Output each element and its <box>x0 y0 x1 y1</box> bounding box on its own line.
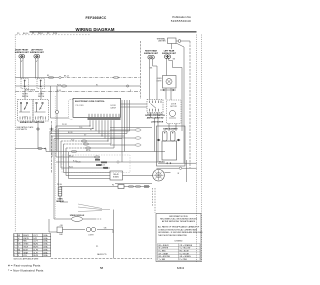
wire tag oval on W bus <box>61 85 67 87</box>
svg-text:R-14: R-14 <box>53 33 57 35</box>
svg-text:R = RED: R = RED <box>159 251 167 253</box>
wire across warmer switch boxes y86 <box>15 85 140 87</box>
svg-text:P = PINK: P = PINK <box>180 259 188 261</box>
oven light box <box>157 76 176 101</box>
bundle horizontals right <box>61 140 82 142</box>
bake element cartridges <box>163 131 168 141</box>
bus wire labels <box>57 76 98 92</box>
svg-text:6: 6 <box>14 249 15 251</box>
svg-text:P3 GN: P3 GN <box>57 184 63 186</box>
svg-text:CONDUCTING ELECTRICAL CURRENT: CONDUCTING ELECTRICAL CURRENT ARE <box>158 228 198 231</box>
svg-text:W-10: W-10 <box>104 168 108 170</box>
svg-text:SPARK MODULE: SPARK MODULE <box>70 214 85 217</box>
EOC terminal drops <box>89 120 91 126</box>
svg-text:W-14: W-14 <box>57 84 61 86</box>
svg-text:P2: P2 <box>47 33 49 35</box>
svg-text:P4: P4 <box>112 184 114 186</box>
junction at x127 on W bus <box>127 85 129 87</box>
wire y219 with transformer <box>54 218 71 220</box>
svg-text:62613: 62613 <box>177 266 185 270</box>
svg-text:LIGHT: LIGHT <box>157 80 162 82</box>
svg-text:LEGEND: LEGEND <box>175 240 183 242</box>
drop to bottom rail <box>113 210 115 259</box>
svg-text:BK-14: BK-14 <box>23 33 28 35</box>
mid-right short horizontals with components <box>110 127 152 129</box>
surface unit LR <box>162 50 177 61</box>
top supply wire (dashed) with labels <box>16 34 90 36</box>
svg-text:V = VIOLET: V = VIOLET <box>180 253 191 255</box>
surface unit contact dots <box>20 56 169 58</box>
svg-text:V: V <box>18 255 20 257</box>
wire riser x157 from SU-RR <box>152 59 154 66</box>
svg-text:3: 3 <box>14 241 15 243</box>
svg-text:L1 P: L1 P <box>23 117 27 119</box>
svg-text:SENSOR: SENSOR <box>56 201 64 203</box>
thermal limiter (top right assembly) <box>156 37 180 43</box>
svg-text:W-12: W-12 <box>69 166 73 168</box>
svg-text:GROUNDED - IF GROUND WIRES ARE: GROUNDED - IF GROUND WIRES ARE REMOVED <box>158 231 203 234</box>
notes box <box>156 214 201 262</box>
svg-text:GN-10: GN-10 <box>76 162 81 164</box>
svg-text:# = Fast-moving Parts: # = Fast-moving Parts <box>8 264 41 268</box>
bus N (y88.5) <box>15 91 140 93</box>
svg-text:BK-12: BK-12 <box>69 155 74 157</box>
infinite switch terminal ticks <box>20 117 46 120</box>
svg-text:5A05557TL: 5A05557TL <box>97 253 107 256</box>
svg-text:H1: H1 <box>24 108 26 110</box>
svg-text:L1-P1: L1-P1 <box>33 235 38 237</box>
svg-text:ALL PARTS OF THIS APPLIANCE CA: ALL PARTS OF THIS APPLIANCE CAPABLE OF <box>158 226 200 229</box>
surface unit LF leads <box>35 58 37 79</box>
svg-text:BK: BK <box>150 68 153 70</box>
svg-text:P1: P1 <box>32 33 34 35</box>
bus L1 (y77.5) <box>15 77 59 79</box>
svg-text:W = WHITE: W = WHITE <box>159 248 169 250</box>
svg-text:R: R <box>130 90 132 92</box>
svg-text:BK: BK <box>173 59 176 61</box>
surface unit RF <box>15 50 30 59</box>
svg-text:Y-16: Y-16 <box>79 127 82 129</box>
oven light lamp y229.5 <box>86 227 90 231</box>
svg-text:BK-16: BK-16 <box>86 150 91 152</box>
dashed drop from motor circle <box>154 188 156 213</box>
door lock block wires <box>150 113 152 119</box>
svg-text:1: 1 <box>14 235 15 237</box>
bus y162 with junction <box>56 161 117 163</box>
surface unit RR <box>144 50 159 70</box>
svg-text:TB BK-10: TB BK-10 <box>98 165 105 167</box>
svg-text:1-BK: 1-BK <box>59 234 64 236</box>
svg-text:8: 8 <box>14 255 15 257</box>
wire box N to motor circle <box>123 175 153 177</box>
wire y183.5 <box>115 183 152 185</box>
risers below infinite switch block <box>37 121 39 149</box>
wire riser x190 <box>189 41 191 168</box>
table cell text <box>14 234 48 257</box>
svg-text:BOARD: BOARD <box>113 176 120 179</box>
tag cluster on left bus <box>38 148 42 150</box>
svg-text:W-14: W-14 <box>38 33 42 35</box>
electronic oven control box <box>73 98 121 117</box>
convection motor circle <box>153 169 165 181</box>
EOC fan-out left horizontals <box>50 130 130 132</box>
svg-text:SURFACE UNIT: SURFACE UNIT <box>162 52 177 55</box>
warmer switch box left <box>21 79 29 89</box>
right chassis border inner (dotted) <box>196 35 198 263</box>
svg-text:GN = GREEN: GN = GREEN <box>180 256 192 258</box>
wire riser x184 <box>183 47 185 163</box>
svg-text:6″: 6″ <box>36 61 38 63</box>
dotted console divider x55 <box>54 96 56 219</box>
small box on y229.5 <box>57 227 63 233</box>
bake element bottom wires <box>158 162 197 164</box>
svg-text:5995559040: 5995559040 <box>171 19 191 23</box>
svg-text:P9: P9 <box>17 33 19 35</box>
svg-text:BU-16: BU-16 <box>68 132 73 134</box>
svg-text:SWITCH: SWITCH <box>22 96 29 98</box>
svg-text:BK-16: BK-16 <box>159 161 164 163</box>
switch name labels under warmer boxes <box>22 94 45 98</box>
svg-text:BR-P5: BR-P5 <box>33 247 38 249</box>
svg-text:AND PLUNGER SW: AND PLUNGER SW <box>147 117 164 120</box>
top-right assembly wires <box>176 40 178 42</box>
junction at x60 <box>59 76 61 78</box>
svg-text:OL-P7: OL-P7 <box>33 252 38 254</box>
terminal block cluster <box>95 159 108 169</box>
bottom rail <box>51 257 152 259</box>
mid cluster labels <box>69 155 108 169</box>
band y186.5 <box>60 186 118 188</box>
svg-text:R-14: R-14 <box>57 90 61 92</box>
element connector diamonds <box>157 139 161 142</box>
wire y229.5 cluster <box>49 231 57 233</box>
wire tag ovals mid <box>81 140 86 142</box>
svg-text:4: 4 <box>14 244 15 246</box>
svg-text:2: 2 <box>14 238 15 240</box>
infinite switch box right <box>33 100 49 122</box>
bake element body <box>162 141 177 160</box>
junction dots <box>89 125 108 141</box>
color code table <box>158 244 201 261</box>
door lock motor box <box>167 100 182 124</box>
wire tag ovals mid-right <box>135 129 141 131</box>
riser x57 with component <box>56 86 58 111</box>
infinite switch box left <box>18 100 34 122</box>
svg-text:SWITCH: SWITCH <box>38 96 45 98</box>
svg-text:-OB: -OB <box>59 225 63 227</box>
svg-text:BAKE ELEMENT: BAKE ELEMENT <box>163 128 178 131</box>
title rule <box>30 31 197 33</box>
svg-text:P1: P1 <box>96 246 98 248</box>
element size labels <box>21 61 38 63</box>
svg-text:BU = BLUE: BU = BLUE <box>180 251 190 253</box>
svg-text:V-16: V-16 <box>71 139 74 141</box>
svg-text:Y = YELLOW: Y = YELLOW <box>180 248 191 250</box>
svg-text:MOTOR: MOTOR <box>170 106 177 108</box>
svg-text:BLACK: BLACK <box>23 234 29 237</box>
oven cavity enclosure box <box>157 126 186 166</box>
svg-text:SURFACE UNIT: SURFACE UNIT <box>30 51 45 54</box>
svg-text:LIGHT: LIGHT <box>88 234 94 236</box>
svg-text:SURF UNITS: SURF UNITS <box>25 90 36 92</box>
EOC right risers <box>121 100 123 162</box>
svg-text:600V 105C APPLIANCE WIRE: 600V 105C APPLIANCE WIRE <box>14 257 39 260</box>
element bottom arrows <box>166 162 168 164</box>
svg-text:SURFACE UNIT: SURFACE UNIT <box>15 51 30 54</box>
svg-text:YELW: YELW <box>23 247 28 249</box>
svg-text:SURFACE UNIT SWITCHES: SURFACE UNIT SWITCHES <box>20 121 45 124</box>
dashed harness outline <box>62 155 130 173</box>
svg-text:LOCK MOTOR: LOCK MOTOR <box>151 122 164 124</box>
svg-text:BA-P4: BA-P4 <box>33 243 38 246</box>
svg-text:FEF366MCC: FEF366MCC <box>85 16 106 20</box>
SU-LR leads <box>166 58 168 75</box>
wire N feed to EOC <box>51 86 69 118</box>
svg-text:LT FRT: LT FRT <box>38 94 43 96</box>
svg-text:DL-P6: DL-P6 <box>33 249 38 251</box>
svg-text:BK = BLACK: BK = BLACK <box>159 244 170 247</box>
svg-text:N-P2: N-P2 <box>33 238 37 240</box>
svg-text:BR = BROWN: BR = BROWN <box>159 256 171 258</box>
relay box N <box>110 171 123 180</box>
component on riser x57 <box>56 110 59 114</box>
svg-text:P5 OR: P5 OR <box>62 124 68 126</box>
surface unit RF leads <box>20 58 22 79</box>
svg-text:ORNG: ORNG <box>23 244 29 246</box>
door lock switch box <box>147 100 163 113</box>
wire y67.5 right <box>173 67 183 69</box>
svg-text:L2 P: L2 P <box>39 117 43 119</box>
left chassis border (dotted) <box>14 35 16 233</box>
svg-text:P11 CONN: P11 CONN <box>76 105 85 107</box>
transformer on y219 <box>72 217 83 222</box>
console dashed outline left edge <box>69 100 73 120</box>
svg-text:LIMITER: LIMITER <box>158 41 166 43</box>
svg-text:SURFACE UNIT: SURFACE UNIT <box>144 52 159 55</box>
svg-text:VIOL: VIOL <box>23 255 27 257</box>
svg-text:5: 5 <box>14 247 15 249</box>
svg-text:P7: P7 <box>90 129 92 131</box>
parts legend table <box>14 234 51 257</box>
oven sensor <box>56 187 64 203</box>
svg-text:OR = ORANGE: OR = ORANGE <box>180 244 193 247</box>
svg-text:OB: OB <box>104 228 107 230</box>
svg-text:7: 7 <box>14 252 15 254</box>
fan wire labels <box>62 124 92 141</box>
svg-text:L2-P3: L2-P3 <box>33 241 38 243</box>
EOC terminal ticks <box>89 114 119 118</box>
svg-text:FOR WATTS: FOR WATTS <box>17 128 28 131</box>
svg-text:LATCH: LATCH <box>111 107 117 110</box>
connector converge diagonals <box>78 204 102 209</box>
bus y151.5 <box>15 148 46 150</box>
svg-text:AFTER SERVICING THIS APPLIANCE: AFTER SERVICING THIS APPLIANCE <box>162 220 196 223</box>
svg-text:RT FRT: RT FRT <box>22 94 28 96</box>
svg-text:WIRING DIAGRAM: WIRING DIAGRAM <box>75 27 114 32</box>
svg-text:GY = GRAY: GY = GRAY <box>159 252 169 255</box>
wire riser x182 <box>181 68 183 132</box>
wire riser x140 <box>140 41 142 99</box>
svg-text:WHITE: WHITE <box>23 238 29 240</box>
svg-text:H2: H2 <box>39 108 41 110</box>
wires group <box>15 41 196 258</box>
EOC to door lock switch wires <box>121 103 148 105</box>
svg-text:* = Non-Illustrated Parts: * = Non-Illustrated Parts <box>8 268 44 272</box>
svg-text:THEY MUST BE RECONNECTED: THEY MUST BE RECONNECTED <box>158 235 188 237</box>
svg-text:8″: 8″ <box>21 61 23 63</box>
svg-text:T = TAN: T = TAN <box>159 258 166 261</box>
right chassis border outer (dotted) <box>201 35 203 263</box>
surface unit LF <box>30 50 45 59</box>
svg-text:ELECTRONIC OVEN CONTROL: ELECTRONIC OVEN CONTROL <box>75 101 105 103</box>
left vertical bundle <box>49 131 51 152</box>
sensor leads <box>59 186 61 189</box>
svg-text:SE-P8: SE-P8 <box>33 255 38 257</box>
svg-text:58: 58 <box>100 266 104 270</box>
left small switch boxes to infinite switches risers <box>24 89 26 100</box>
wire tag oval on L1 bus <box>48 76 54 78</box>
wire tag on L1 bus mid <box>113 76 118 78</box>
svg-text:BK-14: BK-14 <box>64 76 69 78</box>
connector cross on riser x38 <box>36 127 54 131</box>
warmer switch box right <box>37 79 45 89</box>
svg-text:W: W <box>178 173 180 175</box>
EOC terminal labels row <box>88 118 121 120</box>
